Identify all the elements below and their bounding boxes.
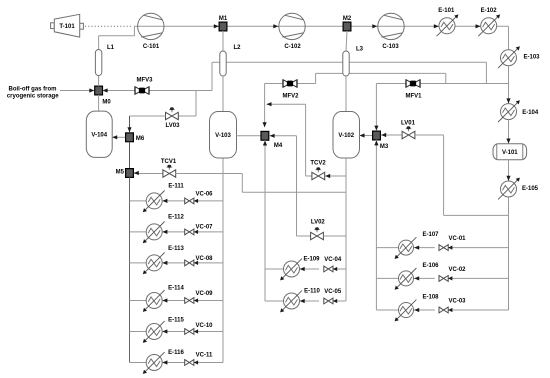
svg-text:TCV2: TCV2	[310, 161, 326, 167]
vessel V-102	[333, 112, 360, 159]
svg-text:MFV3: MFV3	[136, 78, 153, 84]
valve VC-09	[185, 291, 213, 304]
flow arrow into C-103	[372, 24, 377, 28]
svg-text:L2: L2	[233, 45, 241, 51]
heat exchanger E-114	[143, 285, 185, 312]
svg-text:C-101: C-101	[143, 44, 160, 50]
svg-text:M2: M2	[343, 16, 352, 22]
compressor C-103	[378, 13, 404, 50]
heat exchanger E-115	[143, 318, 185, 343]
wire MFV1 to M3	[374, 126, 378, 131]
valve VC-07	[185, 224, 213, 234]
svg-text:L3: L3	[356, 47, 364, 53]
svg-text:M1: M1	[219, 16, 228, 22]
wire L1 to C-101 inlet	[99, 26, 135, 50]
heat exchanger E-103	[498, 46, 540, 68]
wire L2 to V-103	[222, 76, 224, 112]
svg-text:V-102: V-102	[338, 133, 354, 139]
svg-text:E-109: E-109	[303, 257, 320, 263]
heat exchanger E-109	[280, 257, 320, 281]
instrument L2	[220, 45, 241, 76]
flow arrow into E-101	[434, 24, 439, 28]
heat exchanger E-107	[395, 232, 440, 259]
mixer M1	[219, 16, 228, 31]
wire V-101 to E-105	[506, 160, 510, 181]
feed text	[7, 86, 59, 99]
wire LV03 branch	[178, 91, 196, 117]
valve VC-08	[185, 256, 213, 266]
wire recycle line A	[212, 62, 486, 83]
wire TCV1 header	[176, 174, 346, 193]
heat exchanger E-102	[478, 8, 500, 36]
svg-text:E-102: E-102	[481, 8, 498, 14]
valve VC-02	[439, 267, 466, 281]
heat exchanger E-110	[280, 289, 320, 313]
wire TCV1 to M5	[134, 171, 163, 175]
valve VC-04	[324, 257, 342, 272]
svg-text:E-107: E-107	[422, 232, 439, 238]
svg-text:E-110: E-110	[304, 289, 320, 295]
wire row E-115	[130, 329, 224, 333]
wire LV02 to rail	[323, 235, 346, 237]
wire right rail	[508, 215, 510, 310]
mixer M5	[116, 169, 134, 178]
wire row E-114	[130, 298, 224, 302]
wire row E-106	[376, 276, 508, 280]
svg-text:T-101: T-101	[59, 24, 75, 30]
svg-text:cryogenic storage: cryogenic storage	[7, 93, 59, 99]
compressor C-102	[279, 13, 305, 50]
svg-text:MFV1: MFV1	[405, 94, 422, 100]
svg-text:M3: M3	[380, 144, 389, 150]
wire M0 to V-104	[98, 95, 100, 111]
svg-text:E-113: E-113	[168, 246, 184, 252]
compressor C-101	[138, 13, 164, 50]
control valve LV02	[311, 220, 326, 240]
wire LV03 to M6	[127, 116, 165, 132]
flow arrow into E-102	[476, 24, 481, 28]
valve VC-01	[439, 236, 466, 250]
svg-text:M4: M4	[274, 143, 283, 149]
svg-text:VC-11: VC-11	[196, 353, 213, 359]
mixer M3	[373, 131, 389, 150]
wire row E-112	[130, 230, 224, 234]
wire E-105 outlet down	[508, 197, 510, 215]
wire main top line	[134, 25, 508, 27]
wire V-102 bottom riser	[345, 158, 347, 301]
svg-text:LV02: LV02	[311, 220, 326, 226]
svg-text:V-103: V-103	[215, 133, 231, 139]
svg-text:TCV1: TCV1	[161, 159, 177, 165]
svg-text:VC-02: VC-02	[448, 267, 466, 273]
svg-text:C-102: C-102	[284, 44, 301, 50]
heat exchanger E-104	[498, 100, 539, 122]
flow arrow into M1	[214, 24, 219, 28]
vessel V-101	[493, 144, 527, 160]
valve VC-06	[185, 191, 213, 203]
svg-text:VC-01: VC-01	[448, 236, 466, 242]
svg-text:E-116: E-116	[168, 350, 184, 356]
wire M6 to M5	[129, 142, 131, 169]
heat exchanger E-108	[395, 295, 440, 322]
control valve MFV1	[405, 80, 422, 100]
mixer M0	[95, 86, 112, 105]
control valve TCV1	[161, 159, 177, 177]
control valve TCV2	[310, 161, 326, 180]
control valve LV01	[401, 121, 416, 139]
heat exchanger E-101	[437, 8, 459, 36]
mixer M6	[126, 133, 145, 142]
wire recycle line B	[316, 73, 446, 83]
svg-text:VC-07: VC-07	[195, 224, 213, 230]
vessel V-104	[86, 111, 112, 157]
valve VC-11	[185, 353, 213, 366]
svg-text:VC-09: VC-09	[195, 291, 213, 297]
wire row E-109	[265, 267, 346, 271]
turbine T-101	[51, 14, 84, 37]
svg-text:M5: M5	[116, 170, 125, 176]
wire M4 to V-103	[237, 135, 261, 137]
wire row E-113	[130, 261, 224, 265]
wire M3 to V-102	[360, 133, 373, 137]
mixer M2	[343, 16, 352, 31]
wire V-103 outlet rail	[222, 158, 224, 363]
svg-text:E-111: E-111	[168, 184, 184, 190]
wire M3 bottom rail	[374, 140, 378, 310]
wire LV02 riser to M4	[269, 134, 311, 236]
wire M1 to L2	[222, 31, 224, 51]
wire row E-108	[376, 308, 508, 312]
svg-text:M6: M6	[136, 136, 145, 142]
wire M4 bottom rail	[263, 140, 267, 301]
svg-text:E-112: E-112	[168, 215, 184, 221]
svg-text:VC-10: VC-10	[195, 323, 213, 329]
svg-text:E-105: E-105	[522, 186, 539, 192]
wire M6 to V-104	[112, 135, 125, 139]
valve VC-10	[185, 323, 213, 335]
wire row E-116	[130, 360, 224, 364]
flow arrow into C-102	[273, 24, 278, 28]
svg-text:VC-03: VC-03	[448, 299, 466, 305]
wire TCV2 riser	[267, 102, 306, 176]
instrument L3	[343, 47, 364, 77]
vessel V-103	[210, 112, 237, 159]
shaft coupling (dashed)	[85, 25, 133, 27]
wire row E-107	[376, 246, 508, 250]
wire L3 to V-102	[345, 76, 347, 112]
control valve LV03	[166, 107, 181, 129]
wire E-104 to V-101	[506, 120, 510, 144]
instrument L1	[95, 45, 114, 76]
svg-text:L1: L1	[107, 45, 115, 51]
heat exchanger E-105	[498, 178, 539, 200]
svg-text:C-103: C-103	[382, 44, 399, 50]
mixer M4	[261, 131, 283, 149]
heat exchanger E-116	[143, 350, 185, 374]
wire M2 to L3	[346, 31, 347, 51]
wire M0 up to L1	[98, 76, 100, 87]
wire left ladder left rail	[129, 177, 131, 362]
svg-text:VC-04: VC-04	[324, 257, 342, 263]
wire MFV2 line	[263, 73, 316, 127]
heat exchanger E-112	[143, 215, 185, 244]
valve VC-05	[324, 289, 342, 304]
wire E-103 to E-104	[506, 66, 510, 104]
wire M3 to LV01	[381, 133, 402, 137]
wire LV01 riser	[415, 135, 509, 215]
svg-text:VC-06: VC-06	[195, 191, 213, 197]
svg-text:E-104: E-104	[522, 110, 539, 116]
wire MFV3 line	[103, 62, 212, 92]
svg-text:VC-08: VC-08	[195, 256, 213, 262]
svg-text:E-115: E-115	[168, 318, 184, 324]
svg-text:E-101: E-101	[438, 8, 455, 14]
valve VC-03	[439, 299, 466, 313]
svg-text:E-108: E-108	[422, 295, 439, 301]
heat exchanger E-106	[395, 263, 440, 290]
svg-text:M0: M0	[102, 100, 111, 106]
control valve MFV2	[282, 80, 299, 100]
svg-text:LV01: LV01	[401, 121, 416, 127]
svg-text:E-106: E-106	[422, 263, 439, 269]
wire boil-off feed	[60, 88, 94, 92]
wire V-102 to TCV2	[306, 174, 346, 178]
wire row E-111	[130, 199, 224, 203]
heat exchanger E-113	[143, 246, 185, 274]
svg-text:V-104: V-104	[91, 132, 107, 138]
svg-text:E-103: E-103	[523, 55, 540, 61]
svg-text:Boil-off gas from: Boil-off gas from	[9, 86, 57, 92]
wire E-102 outlet down	[508, 26, 510, 49]
heat exchanger E-111	[143, 184, 185, 213]
svg-text:VC-05: VC-05	[324, 289, 342, 295]
svg-text:E-114: E-114	[168, 285, 184, 291]
svg-text:MFV2: MFV2	[282, 93, 299, 99]
svg-text:LV03: LV03	[166, 123, 181, 129]
control valve MFV3	[135, 78, 153, 95]
wire row E-110	[265, 299, 346, 303]
wire MFV1 header	[376, 84, 508, 129]
svg-text:V-101: V-101	[502, 150, 518, 156]
